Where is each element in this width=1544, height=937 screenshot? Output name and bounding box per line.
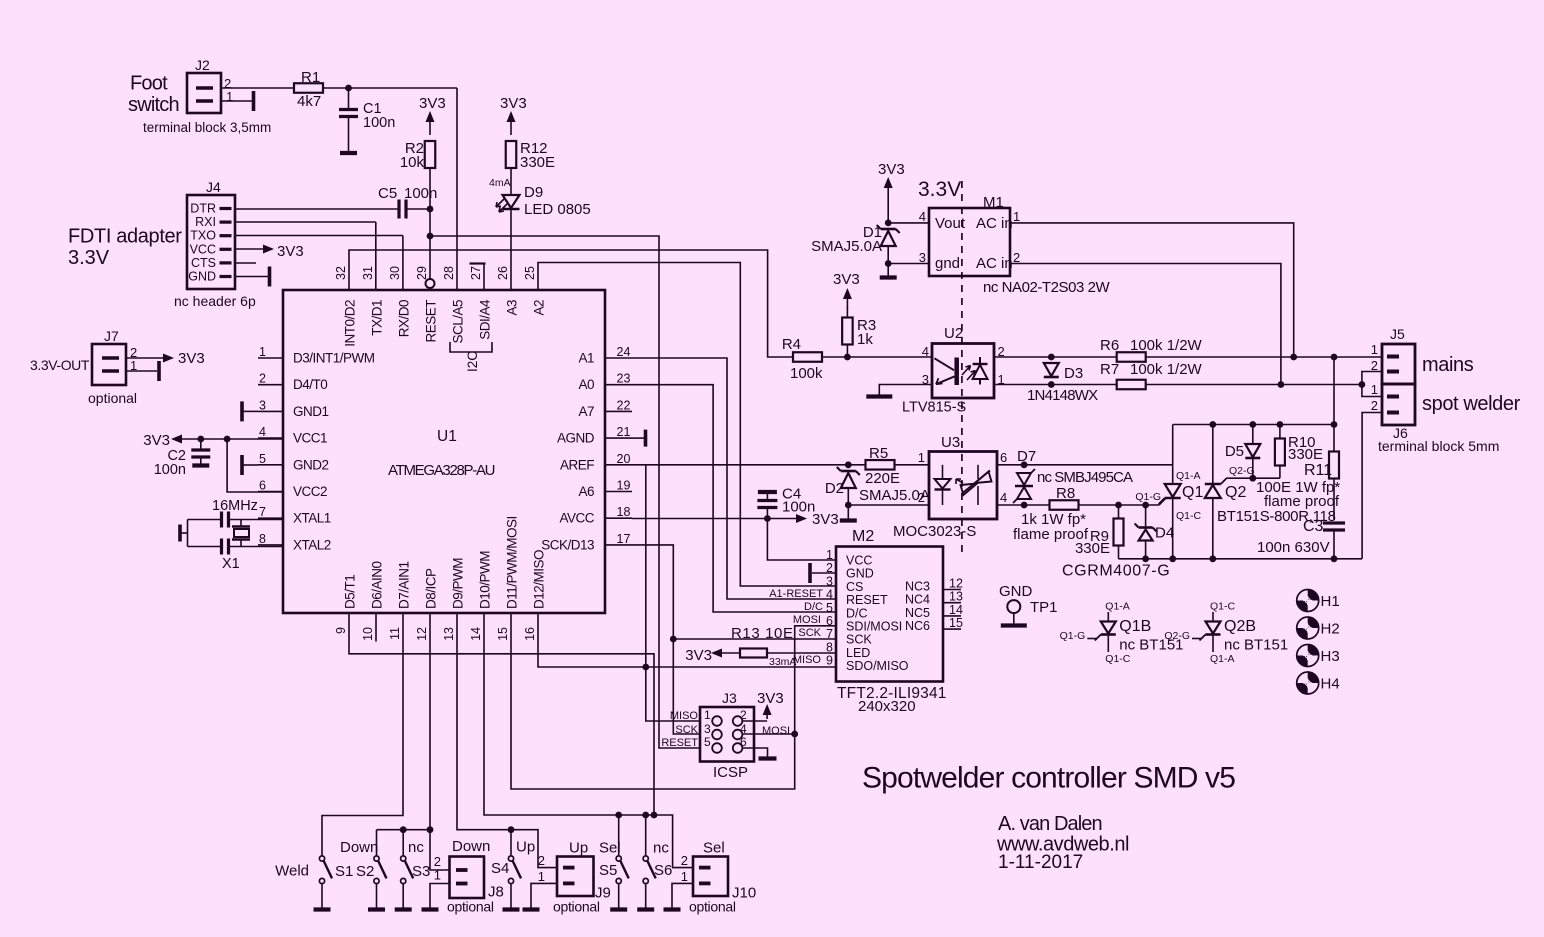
svg-text:3: 3 xyxy=(826,574,833,588)
svg-text:2: 2 xyxy=(918,490,925,505)
svg-text:M2: M2 xyxy=(852,528,874,545)
svg-text:Q2B: Q2B xyxy=(1224,618,1256,635)
svg-text:Weld: Weld xyxy=(275,863,309,880)
svg-text:D3: D3 xyxy=(1064,365,1083,382)
svg-text:SCK/D13: SCK/D13 xyxy=(541,537,594,552)
svg-text:D9/PWM: D9/PWM xyxy=(451,558,466,609)
svg-text:330E: 330E xyxy=(520,154,555,171)
svg-text:Q1-A: Q1-A xyxy=(1176,470,1201,482)
svg-text:H3: H3 xyxy=(1321,648,1340,665)
svg-text:3V3: 3V3 xyxy=(419,95,446,112)
svg-text:4: 4 xyxy=(259,425,266,439)
svg-text:U2: U2 xyxy=(944,325,963,342)
svg-text:7: 7 xyxy=(826,627,833,641)
svg-text:1: 1 xyxy=(681,869,688,884)
svg-text:Down: Down xyxy=(452,838,490,855)
svg-text:Foot: Foot xyxy=(130,73,168,95)
svg-text:A1-RESET: A1-RESET xyxy=(769,588,823,600)
svg-text:R7: R7 xyxy=(1100,361,1119,378)
svg-text:U1: U1 xyxy=(437,428,457,445)
svg-text:14: 14 xyxy=(949,603,963,617)
svg-text:LTV815-S: LTV815-S xyxy=(902,400,966,416)
svg-text:H1: H1 xyxy=(1321,593,1340,610)
svg-text:33mA: 33mA xyxy=(769,656,796,668)
svg-text:R11: R11 xyxy=(1304,462,1332,479)
svg-text:D2: D2 xyxy=(825,480,844,497)
svg-text:13: 13 xyxy=(442,627,456,641)
svg-text:GND: GND xyxy=(999,583,1033,600)
svg-text:3: 3 xyxy=(922,372,929,387)
svg-text:100n: 100n xyxy=(782,499,815,516)
svg-text:8: 8 xyxy=(259,532,266,546)
svg-text:330E: 330E xyxy=(1288,446,1323,463)
svg-text:D8/ICP: D8/ICP xyxy=(424,568,439,609)
svg-text:MISO: MISO xyxy=(670,710,699,722)
svg-text:330E: 330E xyxy=(1075,540,1110,557)
svg-text:J7: J7 xyxy=(104,328,119,344)
svg-text:D/C: D/C xyxy=(804,601,823,613)
svg-text:J5: J5 xyxy=(1390,326,1405,342)
svg-text:100n 630V: 100n 630V xyxy=(1257,539,1330,556)
svg-text:mains: mains xyxy=(1422,354,1474,376)
svg-text:2: 2 xyxy=(538,853,545,868)
svg-text:VCC1: VCC1 xyxy=(293,431,327,446)
svg-text:R4: R4 xyxy=(782,336,801,353)
svg-text:H4: H4 xyxy=(1321,676,1340,693)
svg-text:16MHz: 16MHz xyxy=(212,498,258,514)
svg-text:CGRM4007-G: CGRM4007-G xyxy=(1062,563,1170,580)
svg-text:MOC3023-S: MOC3023-S xyxy=(893,523,976,540)
svg-text:optional: optional xyxy=(689,899,736,915)
svg-text:SDI/A4: SDI/A4 xyxy=(478,299,493,340)
svg-text:1: 1 xyxy=(259,345,266,359)
svg-text:FDTI adapter: FDTI adapter xyxy=(68,226,182,248)
svg-text:3V3: 3V3 xyxy=(878,161,905,178)
svg-text:100n: 100n xyxy=(404,185,437,202)
svg-text:Q2-G: Q2-G xyxy=(1229,465,1255,477)
svg-text:Up: Up xyxy=(516,839,535,856)
svg-text:LED: LED xyxy=(846,646,870,660)
svg-text:100k 1/2W: 100k 1/2W xyxy=(1130,337,1203,354)
svg-text:30: 30 xyxy=(388,266,402,280)
svg-text:C5: C5 xyxy=(378,185,397,202)
svg-text:optional: optional xyxy=(553,899,600,915)
svg-text:1N4148WX: 1N4148WX xyxy=(1027,387,1098,404)
svg-text:15: 15 xyxy=(496,627,510,641)
svg-text:28: 28 xyxy=(442,266,456,280)
svg-text:Up: Up xyxy=(569,840,588,857)
svg-text:U3: U3 xyxy=(941,434,960,451)
svg-text:VCC: VCC xyxy=(846,554,872,568)
svg-text:SDO/MISO: SDO/MISO xyxy=(846,659,909,673)
svg-text:13: 13 xyxy=(949,590,963,604)
svg-text:1k: 1k xyxy=(857,331,873,348)
svg-text:terminal block 5mm: terminal block 5mm xyxy=(1378,438,1499,454)
svg-text:2: 2 xyxy=(1371,398,1378,413)
svg-text:100n: 100n xyxy=(154,462,186,478)
svg-text:RESET: RESET xyxy=(424,300,439,343)
svg-text:Q1B: Q1B xyxy=(1119,618,1151,635)
svg-text:20: 20 xyxy=(617,452,631,466)
svg-text:D5/T1: D5/T1 xyxy=(343,575,358,609)
svg-text:3V3: 3V3 xyxy=(757,690,784,707)
svg-text:D6/AIN0: D6/AIN0 xyxy=(370,561,385,609)
svg-text:terminal block 3,5mm: terminal block 3,5mm xyxy=(143,120,271,135)
svg-text:A6: A6 xyxy=(578,484,594,499)
svg-text:3V3: 3V3 xyxy=(833,271,860,288)
svg-text:3V3: 3V3 xyxy=(277,243,304,260)
svg-text:MOSI: MOSI xyxy=(762,725,790,737)
svg-text:100n: 100n xyxy=(363,115,395,131)
svg-text:4: 4 xyxy=(1000,490,1007,505)
svg-text:D3/INT1/PWM: D3/INT1/PWM xyxy=(293,351,375,366)
svg-text:240x320: 240x320 xyxy=(858,698,916,715)
svg-text:1-11-2017: 1-11-2017 xyxy=(998,852,1083,873)
svg-text:1: 1 xyxy=(1013,209,1020,224)
svg-text:29: 29 xyxy=(415,266,429,280)
svg-text:3: 3 xyxy=(259,398,266,412)
svg-text:Q1-G: Q1-G xyxy=(1135,491,1161,503)
svg-text:D10/PWM: D10/PWM xyxy=(478,551,493,609)
svg-text:C3: C3 xyxy=(1303,518,1324,535)
svg-text:2: 2 xyxy=(681,853,688,868)
svg-text:4: 4 xyxy=(919,209,926,224)
svg-text:3: 3 xyxy=(704,722,711,736)
svg-text:XTAL2: XTAL2 xyxy=(293,537,331,552)
svg-text:NC6: NC6 xyxy=(905,619,930,633)
svg-text:17: 17 xyxy=(617,532,631,546)
svg-text:3V3: 3V3 xyxy=(685,647,712,664)
svg-text:R6: R6 xyxy=(1100,337,1119,354)
svg-text:10k: 10k xyxy=(400,154,425,171)
svg-text:NC4: NC4 xyxy=(905,593,930,607)
svg-text:26: 26 xyxy=(496,266,510,280)
svg-text:7: 7 xyxy=(259,505,266,519)
svg-text:3V3: 3V3 xyxy=(178,350,205,367)
svg-text:AVCC: AVCC xyxy=(559,511,594,526)
svg-text:27: 27 xyxy=(469,266,483,280)
svg-text:5: 5 xyxy=(826,601,833,615)
svg-text:A2: A2 xyxy=(532,300,547,316)
svg-text:A. van Dalen: A. van Dalen xyxy=(998,813,1102,835)
svg-text:14: 14 xyxy=(469,627,483,641)
svg-text:R8: R8 xyxy=(1056,485,1075,502)
svg-text:RX/D0: RX/D0 xyxy=(397,300,412,337)
svg-text:ICSP: ICSP xyxy=(713,764,748,781)
svg-text:S6: S6 xyxy=(654,862,672,879)
svg-text:18: 18 xyxy=(617,505,631,519)
svg-text:R1: R1 xyxy=(301,69,320,86)
svg-text:CS: CS xyxy=(846,580,863,594)
svg-text:16: 16 xyxy=(523,627,537,641)
svg-text:D7/AIN1: D7/AIN1 xyxy=(397,561,412,609)
svg-text:D5: D5 xyxy=(1225,443,1244,460)
svg-text:CTS: CTS xyxy=(191,256,216,270)
svg-text:optional: optional xyxy=(447,899,494,915)
svg-text:15: 15 xyxy=(949,616,963,630)
svg-text:nc BT151: nc BT151 xyxy=(1224,637,1288,654)
svg-text:RXI: RXI xyxy=(195,215,216,229)
svg-text:gnd: gnd xyxy=(935,255,960,272)
svg-text:21: 21 xyxy=(617,425,631,439)
svg-text:nc: nc xyxy=(653,840,669,857)
svg-text:D7: D7 xyxy=(1017,448,1036,465)
svg-text:MISO: MISO xyxy=(793,654,822,666)
svg-text:A3: A3 xyxy=(505,300,520,316)
svg-text:3.3V-OUT: 3.3V-OUT xyxy=(30,357,90,373)
svg-text:100k 1/2W: 100k 1/2W xyxy=(1130,361,1203,378)
svg-text:GND2: GND2 xyxy=(293,457,329,472)
svg-text:S3: S3 xyxy=(412,863,430,880)
svg-text:Spotwelder controller SMD v5: Spotwelder controller SMD v5 xyxy=(862,762,1235,795)
svg-text:optional: optional xyxy=(88,390,137,406)
svg-text:NC5: NC5 xyxy=(905,606,930,620)
svg-text:Q1-C: Q1-C xyxy=(1210,601,1236,613)
svg-text:3.3V: 3.3V xyxy=(918,178,961,201)
svg-text:22: 22 xyxy=(617,398,631,412)
svg-text:D4: D4 xyxy=(1155,525,1174,542)
svg-text:12: 12 xyxy=(415,627,429,641)
svg-text:2: 2 xyxy=(740,708,747,722)
svg-text:AC in: AC in xyxy=(976,255,1013,272)
svg-text:H2: H2 xyxy=(1321,621,1340,638)
svg-text:GND: GND xyxy=(846,567,874,581)
svg-text:S4: S4 xyxy=(491,860,509,877)
svg-text:SDI/MOSI: SDI/MOSI xyxy=(846,620,902,634)
svg-text:DTR: DTR xyxy=(190,202,216,216)
svg-text:R13 10E: R13 10E xyxy=(731,625,794,642)
svg-text:AREF: AREF xyxy=(560,457,594,472)
svg-text:A7: A7 xyxy=(578,404,594,419)
svg-text:Q1: Q1 xyxy=(1182,484,1203,501)
svg-text:AGND: AGND xyxy=(557,431,595,446)
svg-text:SCK: SCK xyxy=(675,724,698,736)
svg-text:Q1-A: Q1-A xyxy=(1105,601,1130,613)
svg-text:11: 11 xyxy=(388,627,402,640)
svg-text:X1: X1 xyxy=(222,556,240,572)
svg-text:SCK: SCK xyxy=(798,627,821,639)
svg-text:S5: S5 xyxy=(599,862,617,879)
svg-text:nc: nc xyxy=(408,839,424,856)
svg-text:XTAL1: XTAL1 xyxy=(293,511,331,526)
svg-text:19: 19 xyxy=(617,479,631,493)
svg-text:GND1: GND1 xyxy=(293,404,329,419)
svg-text:RESET: RESET xyxy=(846,593,888,607)
svg-text:9: 9 xyxy=(334,627,348,634)
svg-text:INT0/D2: INT0/D2 xyxy=(343,300,358,347)
svg-text:NC3: NC3 xyxy=(905,580,930,594)
svg-text:Sel: Sel xyxy=(703,840,725,857)
svg-text:RESET: RESET xyxy=(661,737,698,749)
svg-text:2: 2 xyxy=(259,372,266,386)
svg-text:S1: S1 xyxy=(335,863,353,880)
svg-text:5: 5 xyxy=(259,452,266,466)
svg-text:Q2: Q2 xyxy=(1225,484,1246,501)
svg-text:1: 1 xyxy=(704,708,711,722)
svg-text:24: 24 xyxy=(617,345,631,359)
svg-text:1: 1 xyxy=(1371,342,1378,357)
svg-text:J4: J4 xyxy=(206,179,221,195)
svg-text:MOSI: MOSI xyxy=(793,614,821,626)
svg-text:J2: J2 xyxy=(195,57,210,73)
svg-text:25: 25 xyxy=(523,266,537,280)
svg-text:1: 1 xyxy=(1371,382,1378,397)
svg-text:1: 1 xyxy=(826,548,833,562)
svg-text:220E: 220E xyxy=(865,470,900,487)
svg-text:TP1: TP1 xyxy=(1030,599,1058,616)
svg-text:GND: GND xyxy=(188,270,216,284)
svg-text:3V3: 3V3 xyxy=(143,432,170,449)
svg-text:Sel: Sel xyxy=(599,840,621,857)
svg-text:LED 0805: LED 0805 xyxy=(524,201,591,218)
svg-text:12: 12 xyxy=(949,577,963,591)
svg-text:AC in: AC in xyxy=(976,215,1013,232)
svg-text:S2: S2 xyxy=(356,863,374,880)
svg-text:D11/PWM/MOSI: D11/PWM/MOSI xyxy=(505,516,520,609)
svg-text:I2C: I2C xyxy=(465,351,480,372)
svg-text:Q1-C: Q1-C xyxy=(1105,653,1131,665)
svg-text:D/C: D/C xyxy=(846,606,868,620)
svg-text:23: 23 xyxy=(617,372,631,386)
svg-text:SCK: SCK xyxy=(846,633,872,647)
svg-text:R5: R5 xyxy=(869,445,888,462)
svg-text:4k7: 4k7 xyxy=(297,93,321,110)
svg-text:Q1-G: Q1-G xyxy=(1060,630,1086,642)
svg-text:spot welder: spot welder xyxy=(1422,393,1521,415)
svg-text:TX/D1: TX/D1 xyxy=(370,300,385,336)
svg-text:D12/MISO: D12/MISO xyxy=(532,550,547,609)
svg-text:SMAJ5.0A: SMAJ5.0A xyxy=(811,238,882,255)
svg-text:D4/T0: D4/T0 xyxy=(293,377,327,392)
svg-text:1: 1 xyxy=(538,869,545,884)
svg-text:4: 4 xyxy=(826,588,833,602)
svg-text:Vout: Vout xyxy=(935,215,966,232)
svg-text:4: 4 xyxy=(740,722,747,736)
svg-text:VCC2: VCC2 xyxy=(293,484,327,499)
svg-text:ATMEGA328P-AU: ATMEGA328P-AU xyxy=(388,462,495,479)
svg-text:VCC: VCC xyxy=(190,242,216,256)
svg-text:nc SMBJ495CA: nc SMBJ495CA xyxy=(1037,469,1133,486)
svg-text:5: 5 xyxy=(704,735,711,749)
svg-text:32: 32 xyxy=(334,266,348,280)
svg-text:6: 6 xyxy=(740,735,747,749)
svg-text:nc header 6p: nc header 6p xyxy=(174,293,256,309)
svg-text:D9: D9 xyxy=(524,184,543,201)
svg-text:100k: 100k xyxy=(790,365,823,382)
svg-text:3.3V: 3.3V xyxy=(68,247,110,269)
svg-text:Q1-C: Q1-C xyxy=(1176,510,1202,522)
svg-text:3V3: 3V3 xyxy=(500,95,527,112)
svg-text:4mA: 4mA xyxy=(489,177,511,189)
svg-text:TXO: TXO xyxy=(190,229,216,243)
svg-text:4: 4 xyxy=(922,344,929,359)
svg-text:31: 31 xyxy=(361,266,375,280)
svg-text:3V3: 3V3 xyxy=(812,511,839,528)
svg-text:Down: Down xyxy=(340,839,378,856)
svg-text:nc NA02-T2S03 2W: nc NA02-T2S03 2W xyxy=(983,279,1110,296)
svg-text:Q1-A: Q1-A xyxy=(1210,653,1235,665)
svg-text:A0: A0 xyxy=(578,377,594,392)
svg-text:6: 6 xyxy=(259,479,266,493)
svg-text:1: 1 xyxy=(434,868,441,883)
svg-text:switch: switch xyxy=(128,94,179,116)
svg-text:6: 6 xyxy=(1000,450,1007,465)
svg-text:SCL/A5: SCL/A5 xyxy=(451,300,466,344)
svg-text:10: 10 xyxy=(361,627,375,641)
svg-text:9: 9 xyxy=(826,654,833,668)
svg-text:J3: J3 xyxy=(722,690,737,706)
svg-text:1: 1 xyxy=(918,450,925,465)
svg-text:A1: A1 xyxy=(578,351,594,366)
svg-text:Q2-G: Q2-G xyxy=(1164,630,1190,642)
